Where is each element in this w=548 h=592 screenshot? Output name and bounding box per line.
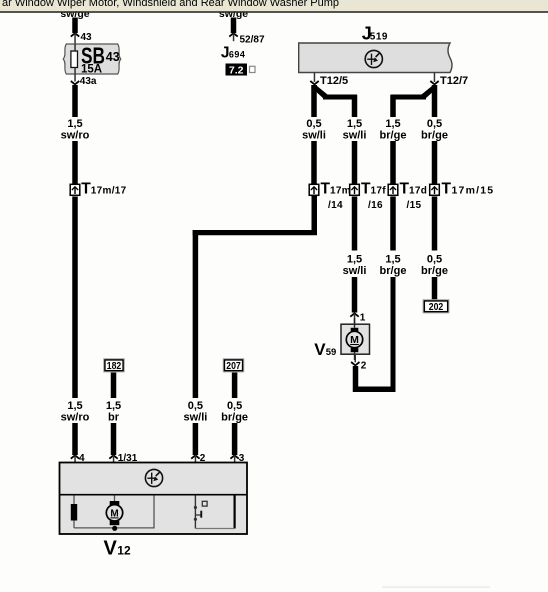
pin arrow 1/31 [109,455,117,463]
svg-text:694: 694 [229,50,246,60]
label V59 [314,340,336,359]
washer pump V59 box [341,324,370,354]
ground plate 182 [104,359,125,372]
V12 separator line [60,494,248,496]
svg-text:43: 43 [81,32,93,43]
pin label 43a [80,76,97,87]
pin arrow 43a [71,68,79,85]
wire through fuse [74,44,76,68]
wire V59 pin2 vertical [353,366,359,392]
wire br/ge to V12 [232,423,238,455]
svg-text:sw/ro: sw/ro [61,412,90,424]
svg-text:1,5: 1,5 [67,400,82,412]
wire 0,5 br/ge to 202 [432,197,438,251]
control unit J519 label [362,24,388,44]
wiper motor V12 box [60,463,248,535]
label T17m/15 [442,181,495,198]
wire label 0,5 sw/li [183,400,207,424]
faint page artifact line [382,586,490,588]
svg-text:1,5: 1,5 [385,118,400,130]
svg-text:sw/li: sw/li [302,130,326,142]
svg-text:17d: 17d [409,186,427,197]
svg-text:1: 1 [360,313,366,324]
svg-text:M: M [350,334,359,346]
svg-text:T: T [400,181,410,198]
svg-text:182: 182 [107,360,122,372]
label T17f /16 [361,181,386,212]
wire 0,5 sw/li stub [311,85,317,117]
svg-text:2: 2 [361,361,367,372]
svg-text:0,5: 0,5 [227,400,242,412]
wire U-turn bottom to V59 pin 2 [353,387,396,393]
connector T17m/17 [70,184,80,195]
wire label 1,5 sw/ro [61,118,90,142]
svg-text:M: M [110,508,118,519]
wire 1,5 br/ge stub [390,95,396,117]
svg-text:T: T [442,181,452,198]
pin label 43 [81,32,93,43]
svg-text:/16: /16 [368,200,383,211]
svg-text:207: 207 [226,360,241,372]
V59 motor symbol [346,318,362,360]
svg-text:1,5: 1,5 [347,254,362,266]
svg-text:br/ge: br/ge [380,130,407,142]
wire sw/li to V12 [193,423,199,455]
node sw/ge (left supply label) [60,8,89,20]
pin label 2 [200,453,206,464]
label V12 [104,538,131,560]
wire sw/li 1,5 to connector [352,141,358,185]
svg-text:202: 202 [429,301,444,313]
wire br/ge down to U-turn [391,277,396,387]
pin arrow 2 [191,455,199,463]
wire label 0,5 br/ge [221,400,248,424]
svg-text:0,5: 0,5 [427,254,442,266]
label T17d /15 [400,181,428,212]
wire label 0,5 br/ge [421,254,448,278]
wire split below T12/7 [391,85,438,100]
pin T12/5 lead [310,73,318,85]
current track reference 7.2 [226,64,248,77]
svg-text:17m: 17m [330,186,351,197]
svg-text:br/ge: br/ge [421,265,448,277]
wire to V59 pin 1 [352,277,358,313]
svg-text:br/ge: br/ge [380,265,407,277]
pin label 1/31 [118,453,138,464]
wire 0,5 br/ge stub [432,85,438,117]
label SB43 [81,43,120,69]
node sw/ge (right supply label) [219,8,248,20]
svg-text:43a: 43a [80,76,97,87]
V12 motor symbol [106,496,122,531]
svg-text:17m/17: 17m/17 [91,186,127,197]
ground plate 207 [223,359,244,372]
header title text [2,0,339,9]
ground plate 202 [423,300,449,313]
pin arrow 3 [230,455,238,463]
wire sw/ro to V12 [72,423,78,455]
wire 1,5 sw/li to V59 upper [352,197,358,251]
svg-text:V: V [314,340,326,359]
wire 1,5 br/ge to connector lower [390,197,396,251]
svg-text:52/87: 52/87 [240,35,265,46]
V12 left internal wire with resistor [71,496,154,529]
svg-text:br: br [108,412,120,424]
relay J694 label [221,45,246,62]
pin label 52/87 [240,35,265,46]
svg-text:1,5: 1,5 [67,118,82,130]
wire sw/ro mid segment [72,141,78,184]
svg-text:12: 12 [117,544,131,558]
label T17m /14 [321,181,351,212]
svg-text:sw/li: sw/li [343,265,367,277]
wire from sw/ge supply to J694 [231,18,237,34]
wire labels row under J519 [302,118,326,142]
svg-text:T: T [81,181,91,198]
svg-text:/15: /15 [407,200,422,211]
wire label 1,5 br/ge [380,254,407,278]
wire br/ge 0,5 to connector [432,141,438,185]
svg-text:br/ge: br/ge [421,130,448,142]
svg-text:17m/15: 17m/15 [452,185,495,197]
wire 0,5 sw/li vertical long [193,230,199,398]
pin label 2 [361,361,367,372]
pin label 4 [79,453,85,464]
pin arrow 1 at V59 [350,313,358,324]
svg-text:T12/7: T12/7 [440,75,468,87]
wire 0,5 sw/li from T17m/14 horizontal run [193,196,317,235]
wire label 1,5 sw/ro lower [61,400,90,424]
wire br to V12 [111,423,117,455]
pin T12/7 lead [430,73,438,85]
wire 1,5 sw/ro upper segment [72,85,78,117]
svg-text:V: V [104,538,118,560]
wire stub to 202 [432,277,438,301]
control unit J519 box [299,43,452,73]
svg-text:0,5: 0,5 [427,118,442,130]
svg-text:ar Window Wiper Motor, Windshi: ar Window Wiper Motor, Windshield and Re… [2,0,339,9]
svg-text:519: 519 [370,32,388,43]
wire 1,5 br upper [111,373,117,399]
pin label T12/5 [320,75,348,87]
connector T17m/14 [309,184,319,195]
svg-text:0,5: 0,5 [306,118,321,130]
J519 internal connection symbol [365,50,382,67]
pin label 3 [239,453,245,464]
wire sw/ro long segment [72,197,78,399]
svg-text:T12/5: T12/5 [320,75,348,87]
svg-text:sw/li: sw/li [183,412,207,424]
pin arrow 52/87 [229,33,237,41]
pin arrow 2 at V59 [351,354,359,365]
wire split below T12/5 [312,85,357,100]
wire label 1,5 sw/li [343,254,367,278]
pin arrow 4 [71,455,79,463]
svg-text:17f: 17f [371,186,387,197]
svg-text:15A: 15A [81,64,102,76]
svg-text:sw/ro: sw/ro [61,130,90,142]
label T17m/17 [81,181,126,198]
svg-text:T: T [361,181,371,198]
svg-text:1,5: 1,5 [385,254,400,266]
connector T17m/15 [430,184,440,195]
svg-text:59: 59 [326,347,337,358]
wire br/ge 1,5 to connector [390,141,396,185]
label 15A [81,64,102,76]
wire 1,5 sw/li stub [352,95,358,117]
header bar [0,0,548,13]
svg-text:sw/li: sw/li [343,130,367,142]
V12 right internal switch circuit [194,496,235,529]
svg-text:7.2: 7.2 [229,65,244,77]
wire 0,5 br/ge upper [232,373,238,399]
svg-text:1,5: 1,5 [106,400,121,412]
wire sw/li 0,5 to connector [311,141,317,185]
small square marker next to 7.2 [250,66,256,72]
fuse symbol [71,51,78,68]
pin label T12/7 [440,75,468,87]
pin arrow 43 [71,33,79,44]
fuse holder SB43 box [63,44,121,74]
svg-text:T: T [321,181,331,198]
svg-text:br/ge: br/ge [221,412,248,424]
wire from sw/ge supply to fuse SB43 [72,18,78,34]
svg-text:/14: /14 [328,200,343,211]
svg-text:43: 43 [106,50,120,64]
svg-text:0,5: 0,5 [188,400,203,412]
connector T17d/15 [388,184,398,195]
wire label 1,5 br [106,400,121,424]
V12 internal connection symbol [145,469,162,486]
svg-text:1,5: 1,5 [347,118,362,130]
pin label 1 [360,313,366,324]
connector T17f/16 [350,184,360,195]
